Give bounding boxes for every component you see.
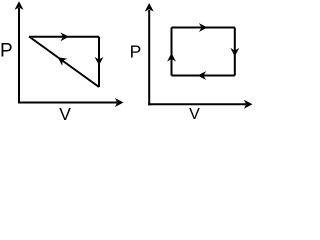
svg-text:P: P [0, 40, 13, 61]
right rectangle right edge (arrow down) [230, 28, 239, 76]
right rectangle top edge (arrow right) [172, 23, 235, 32]
right rectangle left edge (arrow up) [167, 28, 176, 76]
left triangle hypotenuse (arrow up-left) [29, 37, 99, 88]
right diagram P axis (vertical) [145, 3, 154, 106]
left triangle right edge (isochoric, arrow down) [95, 37, 104, 87]
svg-text:V: V [189, 106, 200, 123]
svg-text:P: P [130, 41, 142, 61]
right rectangle bottom edge (arrow left) [172, 71, 235, 80]
left diagram V axis (horizontal) [18, 98, 124, 107]
svg-text:V: V [59, 104, 71, 124]
right diagram V axis (horizontal) [148, 100, 252, 109]
left triangle top edge (isobaric, arrow right) [29, 32, 99, 41]
left diagram P axis (vertical) [15, 1, 24, 103]
